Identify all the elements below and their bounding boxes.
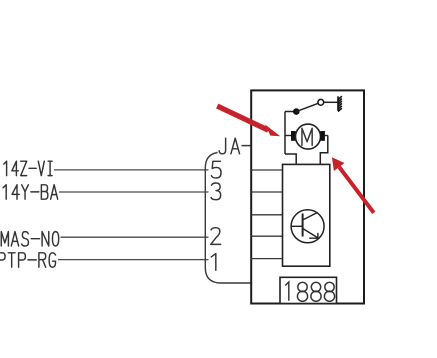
- switch contact circle: [318, 99, 324, 105]
- red arrow pointing at motor left: [217, 106, 280, 136]
- stub pin 2 inside box: [251, 235, 282, 237]
- motor M1 circle: [296, 124, 321, 149]
- digit 8 second: [311, 282, 321, 301]
- motor M1 left brush stub: [285, 135, 292, 137]
- red arrow pointing at motor right leg: [332, 157, 374, 213]
- transistor Q1 collector: [303, 213, 318, 220]
- driver module rectangle: [283, 164, 330, 266]
- junction dot: [293, 108, 300, 115]
- motor M1 letter M: [302, 128, 312, 145]
- wire JA dash to box: [242, 145, 252, 147]
- stub pin 1 inside box: [251, 258, 282, 260]
- display box 1888: [280, 277, 337, 303]
- motor bracket top horizontal: [285, 111, 296, 113]
- wire label 14Y-BA: [3, 185, 58, 199]
- digit 8 third: [324, 282, 334, 301]
- wire label 14Z-VI: [4, 161, 52, 175]
- pin number 2: [211, 228, 221, 245]
- wire PTP-RG to pin 1: [58, 259, 209, 261]
- ECU outer box: [251, 90, 364, 303]
- motor M1 left brush: [291, 131, 296, 141]
- transistor Q1 base lead: [291, 225, 303, 227]
- connector JA bracket: [205, 153, 251, 284]
- pin number 1: [211, 254, 216, 271]
- pin number 3: [211, 183, 221, 200]
- wire MAS-NO to pin 2: [61, 236, 209, 238]
- chassis ground hatch: [338, 96, 342, 111]
- motor bracket right path: [320, 136, 328, 165]
- digit 8 first: [297, 282, 307, 301]
- stub pin 3 inside box: [251, 191, 282, 193]
- transistor Q1 base bar: [302, 214, 304, 237]
- wire switch to chassis: [324, 101, 338, 103]
- switch blade: [296, 103, 318, 111]
- wire 14Z-VI to pin 5: [54, 169, 209, 171]
- motor bracket left vertical: [284, 112, 286, 155]
- digit 1: [285, 282, 289, 301]
- motor M1 right brush: [320, 131, 325, 141]
- stub pin 5 inside box: [251, 169, 282, 171]
- transistor Q1 emitter with arrow: [303, 228, 318, 238]
- wire label MAS-NO: [1, 232, 58, 246]
- wire label PTP-RG: [0, 253, 55, 267]
- wire 14Y-BA to pin 3: [59, 191, 209, 193]
- stub unused pin inside box: [251, 214, 282, 216]
- transistor Q1 circle: [291, 210, 324, 243]
- pin number 5: [211, 161, 221, 178]
- motor bracket bottom left: [285, 154, 296, 164]
- connector label JA: [219, 138, 239, 154]
- motor M1 right brush stub: [325, 135, 328, 137]
